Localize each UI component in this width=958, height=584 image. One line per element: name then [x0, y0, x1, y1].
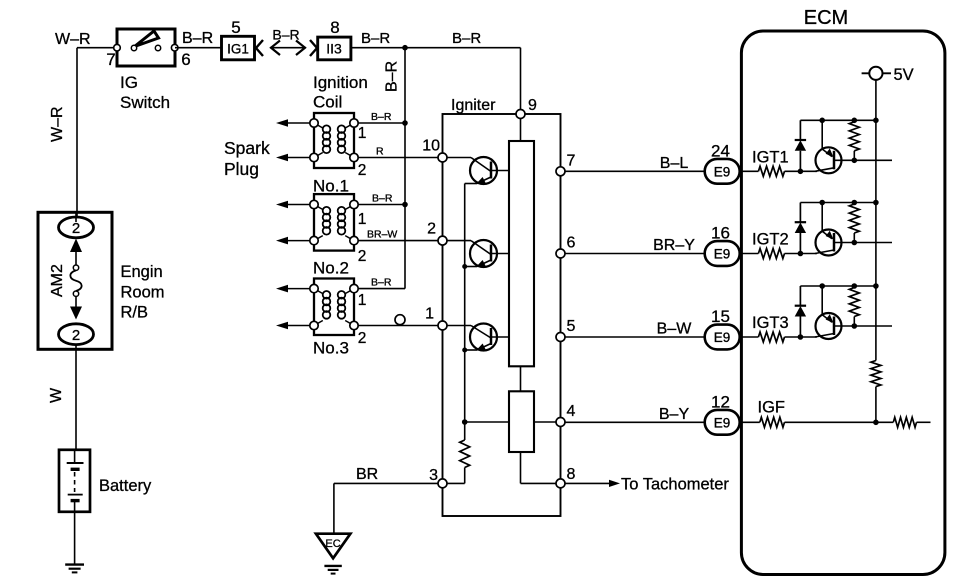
svg-text:To Tachometer: To Tachometer	[621, 476, 729, 494]
wire IG switch to IG1	[175, 47, 222, 49]
wire W-R from IG switch terminal 7 to left corner	[77, 47, 117, 49]
transistor Q3 base wire	[438, 325, 471, 327]
chevron left at IG1	[256, 40, 263, 56]
svg-text:W: W	[48, 387, 65, 403]
coil T1 spark output arrow top	[287, 122, 311, 124]
battery top lead	[74, 450, 76, 463]
igniter pin 5	[556, 333, 565, 342]
coil T3 winding stubs	[314, 289, 323, 294]
svg-text:6: 6	[567, 235, 576, 252]
svg-text:1: 1	[358, 292, 367, 309]
ground under battery	[65, 563, 84, 565]
coil T2 winding stubs	[314, 205, 323, 210]
svg-text:E9: E9	[714, 247, 731, 262]
svg-text:B–R: B–R	[384, 61, 401, 92]
svg-text:6: 6	[181, 50, 190, 69]
junction dots rail ch3	[819, 283, 825, 289]
transistor ECM Q2 emitter	[822, 231, 832, 239]
svg-text:5: 5	[231, 18, 240, 37]
transistor ECM Q3 emitter	[822, 315, 832, 323]
svg-text:IGT2: IGT2	[752, 231, 789, 249]
svg-text:5V: 5V	[894, 66, 914, 84]
wire coil T1 terminal1 to B-R bus	[358, 122, 405, 124]
wire IC lower to pin8	[520, 452, 522, 483]
wire pin 3 BR to EC	[334, 482, 438, 484]
svg-text:Battery: Battery	[99, 477, 152, 495]
battery B1 box	[59, 450, 90, 512]
svg-text:3: 3	[429, 467, 438, 484]
transistor ECM Q1 base line	[834, 159, 892, 161]
transistor Q2 emitter	[477, 260, 491, 267]
battery plate long top	[67, 462, 84, 464]
wire coil T3 terminal1 to B-R bus end	[358, 288, 405, 290]
svg-text:AM2: AM2	[49, 264, 66, 297]
igniter pin 3	[438, 479, 447, 488]
wire resistor to junction ch1	[785, 170, 818, 172]
IG switch inner contact left	[131, 45, 136, 50]
coil T1 winding at x326.5	[323, 125, 331, 133]
resistor igniter R1	[460, 440, 470, 468]
battery plate short bottom	[71, 499, 80, 502]
wire B-R bus vertical	[404, 48, 406, 289]
junction dot coil T2/B-R bus	[402, 202, 408, 208]
svg-text:B–W: B–W	[657, 321, 693, 338]
top rail ch3	[800, 285, 876, 287]
svg-text:7: 7	[567, 152, 576, 169]
svg-text:1: 1	[358, 125, 367, 142]
svg-text:Switch: Switch	[120, 93, 170, 112]
fuse arrow up	[70, 239, 82, 253]
IG switch blade	[135, 31, 159, 47]
ignition coil T1 box	[314, 113, 354, 168]
resistor pull-up ch3	[849, 288, 859, 317]
igniter pin 9	[516, 110, 525, 119]
junction dot Q2 emitter/rail	[462, 264, 467, 269]
resistor input R2	[758, 249, 784, 259]
IG switch terminal 6 circle	[171, 44, 178, 51]
svg-text:7: 7	[106, 50, 115, 69]
transistor Q3 collector	[491, 336, 509, 338]
battery plate long bottom	[68, 494, 83, 496]
svg-text:2: 2	[72, 327, 80, 344]
top rail ch2	[800, 202, 876, 204]
svg-text:B–R: B–R	[371, 111, 392, 123]
coil T3 winding at x326.5	[323, 291, 331, 299]
igniter box	[443, 114, 561, 516]
wire rail to IC lower block	[465, 421, 509, 423]
svg-text:8: 8	[567, 466, 576, 483]
transistor Q2 base wire	[438, 240, 471, 242]
svg-text:E9: E9	[714, 164, 731, 179]
svg-text:E9: E9	[714, 415, 731, 430]
connector ring on No.3 signal wire	[395, 315, 405, 325]
junction dot Q3 emitter/rail	[462, 348, 467, 353]
wire into fuse	[75, 212, 77, 222]
igniter pin 7	[556, 167, 565, 176]
coil T2 spark output arrow top	[287, 204, 311, 206]
igniter pin 6	[556, 249, 565, 258]
svg-text:IGF: IGF	[758, 399, 786, 417]
transistor ECM Q1 collector	[815, 168, 834, 172]
transistor ECM Q2 circle	[816, 230, 842, 256]
wire B–L igniter to E9	[565, 170, 705, 172]
wire coil T2 terminal2 to igniter pin 2	[358, 240, 438, 242]
igniter transistor Q2 circle	[470, 240, 497, 267]
svg-text:8: 8	[330, 18, 339, 37]
wire resistor to junction ch3	[785, 336, 818, 338]
svg-text:IGT1: IGT1	[752, 148, 789, 166]
transistor Q3 emitter	[477, 344, 491, 351]
transistor Q3 base bar	[490, 328, 493, 345]
svg-text:B–Y: B–Y	[659, 406, 690, 423]
igniter transistor Q1 circle	[470, 157, 497, 184]
wire coil T1 terminal2 to igniter pin 10	[358, 157, 438, 159]
svg-text:2: 2	[358, 162, 367, 179]
svg-text:No.1: No.1	[313, 177, 349, 196]
wire E9 IGF into ECM	[740, 421, 760, 423]
svg-text:B–R: B–R	[272, 27, 299, 43]
fuse AM2 box (Engine Room R/B)	[38, 212, 112, 349]
wire BR–Y igniter to E9	[565, 253, 705, 255]
svg-text:B–R: B–R	[372, 193, 393, 205]
junction dot base/resistor ch1	[852, 158, 858, 164]
resistor pull-up ch1	[849, 122, 859, 151]
fuse AM2 top terminal oval 2	[59, 217, 94, 238]
svg-text:BR: BR	[356, 466, 378, 483]
junction dot rail/IC lower	[462, 419, 468, 425]
junction dot input ch1	[798, 169, 804, 175]
svg-text:10: 10	[422, 138, 440, 155]
wire emitter riser ch1	[821, 120, 823, 149]
junction dot B-R bus top	[402, 45, 408, 51]
svg-text:No.3: No.3	[313, 339, 349, 358]
wire 5V rail to IGF junction	[875, 387, 877, 423]
wire E9 into ECM ch1	[740, 170, 759, 172]
fuse AM2 bottom terminal oval 2	[59, 324, 94, 345]
svg-text:W–R: W–R	[55, 31, 91, 48]
ignition coil T2 box	[314, 194, 354, 251]
wire IGF to junction	[785, 421, 876, 423]
svg-text:1: 1	[358, 211, 367, 228]
wire E9 into ECM ch2	[740, 253, 759, 255]
wire emitter riser ch2	[821, 203, 823, 232]
igniter transistor Q3 circle	[470, 324, 497, 351]
resistor IGF input	[760, 417, 785, 427]
transistor ECM Q3 base bar	[833, 317, 836, 336]
connector IG1 box	[222, 36, 255, 60]
wire coil T2 terminal1 to B-R bus	[358, 204, 405, 206]
battery dashed center	[74, 472, 76, 492]
diode D3	[799, 317, 801, 338]
svg-text:B–R: B–R	[371, 277, 392, 289]
junction dot input ch3	[798, 334, 804, 340]
IG switch inner contact right	[155, 45, 160, 50]
svg-text:ECM: ECM	[804, 7, 848, 29]
igniter IC lower block	[509, 391, 534, 452]
arrowhead left	[271, 41, 280, 56]
diode D1	[799, 151, 801, 172]
svg-text:Igniter: Igniter	[451, 97, 496, 114]
power symbol 5V	[862, 72, 870, 74]
transistor ECM Q2 base bar	[833, 233, 836, 252]
wire coil T3 terminal2 to igniter pin 1	[358, 325, 438, 327]
svg-text:II3: II3	[326, 41, 342, 57]
connector E9 pin 15 oval	[705, 325, 740, 350]
wire IC blocks link	[520, 366, 522, 391]
fuse element upper circle	[73, 265, 78, 270]
chevron right at II3	[310, 40, 317, 56]
svg-text:B–L: B–L	[660, 155, 689, 172]
wire E9 into ECM ch3	[740, 336, 759, 338]
svg-text:Room: Room	[121, 284, 165, 302]
IG switch terminal 7 circle	[114, 44, 121, 51]
svg-text:2: 2	[358, 330, 367, 347]
svg-text:IGT3: IGT3	[752, 314, 789, 332]
coil T1 terminal circles	[310, 119, 318, 127]
svg-text:BR–Y: BR–Y	[653, 237, 695, 254]
igniter pin 4	[556, 418, 565, 427]
transistor Q2 base bar	[490, 245, 493, 262]
coil T3 winding at x341.5	[338, 291, 346, 299]
coil T1 winding stubs	[314, 123, 323, 128]
svg-text:B–R: B–R	[182, 30, 213, 47]
coil T2 terminal circles	[310, 200, 318, 208]
transistor Q1 base wire	[438, 157, 471, 159]
svg-text:4: 4	[567, 403, 576, 420]
junction dot input ch2	[798, 251, 804, 257]
diode D2	[799, 233, 801, 254]
fuse element S-curve	[70, 270, 81, 291]
svg-text:1: 1	[425, 306, 434, 323]
fuse arrow down	[75, 296, 77, 308]
coil T3 spark output arrow bottom	[287, 325, 311, 327]
ignition coil T3 box	[314, 279, 354, 336]
connector E9 pin 24 oval	[705, 159, 740, 184]
svg-text:Spark: Spark	[224, 138, 270, 158]
transistor Q1 emitter	[477, 177, 491, 184]
connector E9 pin 16 oval	[705, 241, 740, 266]
coil T3 spark output arrow top	[287, 288, 311, 290]
wire II3 to igniter pin 9 corner	[351, 47, 521, 49]
transistor ECM Q1 base bar	[833, 151, 836, 170]
transistor ECM Q1 circle	[816, 147, 842, 173]
transistor Q1 collector	[491, 170, 509, 172]
junction dots rail ch1	[819, 118, 825, 124]
transistor ECM Q3 base line	[834, 325, 892, 327]
ground EC triangle	[316, 534, 351, 559]
igniter pin 1	[438, 321, 447, 330]
svg-text:24: 24	[711, 142, 730, 161]
svg-text:No.2: No.2	[313, 259, 349, 278]
wire pin 8 to tachometer arrow	[565, 482, 609, 484]
resistor input R3	[758, 332, 784, 342]
battery plate short top	[71, 468, 80, 471]
svg-text:E9: E9	[714, 330, 731, 345]
wire IC lower to pin4	[534, 421, 556, 423]
svg-text:R/B: R/B	[121, 304, 149, 322]
coil T2 winding at x341.5	[338, 207, 346, 215]
coil T1 winding at x341.5	[338, 125, 346, 133]
svg-text:Plug: Plug	[224, 159, 259, 179]
wire pin9 into IC	[520, 119, 522, 142]
arrowhead right	[296, 41, 305, 56]
svg-text:Coil: Coil	[313, 93, 342, 112]
transistor ECM Q2 base line	[834, 242, 892, 244]
junction dots rail ch2	[819, 200, 825, 206]
transistor ECM Q1 emitter	[822, 149, 832, 157]
svg-text:IG1: IG1	[227, 42, 249, 57]
wire battery to ground	[74, 512, 76, 565]
coil T2 winding at x326.5	[323, 207, 331, 215]
transistor Q2 collector	[491, 253, 509, 255]
svg-text:Ignition: Ignition	[313, 73, 368, 92]
ECM box	[741, 31, 945, 575]
IG switch SW1 box	[117, 29, 175, 66]
svg-text:EC: EC	[325, 538, 340, 550]
resistor input R1	[758, 166, 784, 176]
wire W-R vertical	[76, 48, 78, 218]
wire emitter rail	[464, 184, 466, 441]
battery bottom lead	[74, 501, 76, 512]
svg-text:B–R: B–R	[452, 30, 481, 47]
coil T2 spark output arrow bottom	[287, 240, 311, 242]
svg-text:2: 2	[358, 248, 367, 265]
wire 5V rail vertical	[875, 80, 877, 361]
igniter pin 8	[556, 479, 565, 488]
resistor pull-up ch2	[849, 204, 859, 233]
coil T1 spark output arrow bottom	[287, 157, 311, 159]
transistor ECM Q2 collector	[815, 250, 834, 254]
svg-text:9: 9	[528, 97, 537, 114]
wire fuse to battery	[75, 345, 77, 450]
svg-text:IG: IG	[120, 73, 138, 92]
transistor ECM Q3 circle	[816, 313, 842, 339]
svg-text:2: 2	[72, 220, 80, 237]
svg-text:5: 5	[567, 318, 576, 335]
svg-text:16: 16	[711, 224, 730, 243]
junction dot coil T1/B-R bus	[402, 120, 408, 126]
resistor IGF right	[876, 421, 893, 423]
junction dot base/resistor ch2	[852, 240, 858, 246]
svg-text:2: 2	[427, 221, 436, 238]
transistor ECM Q3 collector	[815, 334, 834, 338]
svg-text:BR–W: BR–W	[367, 229, 397, 241]
junction dot base/resistor ch3	[852, 323, 858, 329]
top rail ch1	[800, 119, 876, 121]
junction dot IGF/5V	[873, 420, 879, 426]
svg-text:15: 15	[711, 307, 730, 326]
transistor Q1 base bar	[490, 162, 493, 179]
igniter pin 2	[438, 236, 447, 245]
coil T3 terminal circles	[310, 284, 318, 292]
svg-text:W–R: W–R	[49, 106, 66, 142]
wire B–W igniter to E9	[565, 336, 705, 338]
svg-text:12: 12	[711, 393, 730, 412]
svg-text:B–R: B–R	[361, 30, 390, 47]
double arrow wire B-R	[270, 47, 306, 49]
wire emitter riser ch3	[821, 286, 823, 315]
wire resistor to junction ch2	[785, 253, 818, 255]
igniter pin 10	[438, 153, 447, 162]
connector II3 box	[318, 37, 351, 60]
wire resistor to pin3 wire	[464, 468, 466, 484]
svg-text:R: R	[376, 146, 384, 158]
wire B–Y igniter to E9	[565, 421, 705, 423]
resistor ECM pull-down R9	[871, 361, 881, 387]
connector E9 pin 12 oval	[705, 410, 740, 435]
fuse element lower circle	[73, 291, 78, 296]
igniter IC upper block	[509, 141, 534, 366]
ground bars under EC	[324, 565, 341, 567]
svg-text:Engin: Engin	[121, 263, 163, 281]
